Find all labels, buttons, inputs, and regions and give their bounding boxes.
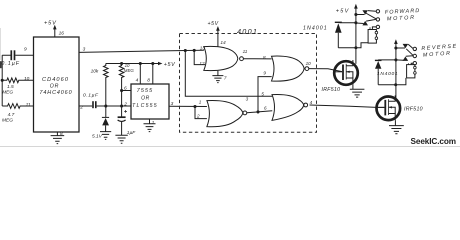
IC U1 CD4060 <box>34 37 80 132</box>
svg-text:MEG: MEG <box>124 68 135 73</box>
wire (gate D out to Q2 gate) <box>310 105 385 107</box>
svg-text:4: 4 <box>310 100 313 105</box>
svg-text:0.1µF: 0.1µF <box>1 61 20 67</box>
svg-text:3: 3 <box>83 46 86 52</box>
svg-text:16: 16 <box>59 30 65 36</box>
svg-text:1: 1 <box>199 99 202 104</box>
resistor R2 4.7MEG <box>2 102 34 124</box>
svg-text:0.1µF: 0.1µF <box>83 92 99 98</box>
svg-text:8: 8 <box>147 78 150 84</box>
svg-text:TLC555: TLC555 <box>132 103 158 109</box>
svg-text:10: 10 <box>306 61 312 66</box>
svg-text:6: 6 <box>264 106 267 111</box>
svg-text:11: 11 <box>243 49 248 54</box>
svg-text:OR: OR <box>50 84 59 90</box>
IC U2 7555 <box>123 64 173 127</box>
svg-text:5.1V: 5.1V <box>92 133 103 139</box>
wire (U2 pin 3 to gate C) <box>169 105 207 119</box>
wire (gate B out to Q1 gate) <box>309 69 342 72</box>
gate U3D NOR <box>261 92 312 121</box>
svg-text:7555: 7555 <box>137 88 153 94</box>
svg-text:+5V: +5V <box>208 21 219 27</box>
power +5V (oscillator rail) <box>106 62 176 68</box>
svg-text:4001: 4001 <box>237 27 258 36</box>
power +5V (reverse motor) <box>394 39 398 99</box>
diode D1 1N4001 <box>303 22 356 48</box>
node: RC rail (left) <box>1 55 4 106</box>
svg-text:1N4001: 1N4001 <box>303 25 328 31</box>
transistor Q2 IRF510 <box>377 95 423 120</box>
svg-text:MEG: MEG <box>2 118 13 124</box>
svg-text:12: 12 <box>199 61 205 66</box>
capacitor C3 1uF <box>118 106 137 136</box>
svg-text:8: 8 <box>60 131 63 137</box>
connector: reverse motor <box>396 43 458 77</box>
resistor R1 1.5MEG <box>2 76 33 95</box>
wire (Q14 branch to gate D pin 5) <box>185 51 272 97</box>
power +5V (forward motor) <box>336 4 358 64</box>
svg-text:1: 1 <box>152 120 155 126</box>
wire (gate C out to gate B pin 9 / gate D pin 6) <box>247 77 272 114</box>
ground (U1 pin 8) <box>51 131 65 144</box>
svg-text:IRF510: IRF510 <box>404 106 423 112</box>
scan artifact: left edge smudge <box>0 61 2 68</box>
capacitor C2 0.1uF <box>83 92 99 108</box>
svg-text:74HC4060: 74HC4060 <box>40 90 73 96</box>
connector: forward motor <box>356 8 421 43</box>
svg-text:14: 14 <box>220 40 226 46</box>
resistor R3 10k <box>91 64 109 107</box>
svg-text:9: 9 <box>263 70 266 75</box>
IC U3 4001 (dashed outline) <box>180 27 317 133</box>
svg-text:3: 3 <box>246 96 249 101</box>
svg-text:CD4060: CD4060 <box>42 77 69 83</box>
gate U3A NOR <box>194 46 248 71</box>
wire (gate A out to gate B pin 8) <box>243 58 271 60</box>
power +5V (U3 pin 14) <box>208 21 227 47</box>
svg-text:2: 2 <box>123 102 127 108</box>
gate U3B NOR <box>263 55 311 81</box>
scan artifact: bottom edge line <box>0 145 460 147</box>
svg-text:7: 7 <box>224 75 227 80</box>
svg-text:+5V: +5V <box>336 9 350 15</box>
ground (U3 pin 7) <box>212 71 227 83</box>
svg-text:OR: OR <box>141 96 150 102</box>
svg-text:+5V: +5V <box>164 62 176 68</box>
ground (Q1 source) <box>350 85 365 97</box>
capacitor C1 0.1uF <box>1 47 33 68</box>
watermark SeekIC.com <box>411 137 456 146</box>
gate U3C NOR <box>196 96 249 126</box>
svg-text:11: 11 <box>26 102 31 108</box>
diode D2 1N4001 <box>375 60 398 85</box>
svg-text:2: 2 <box>196 114 200 119</box>
svg-text:10: 10 <box>24 76 30 82</box>
svg-text:+5V: +5V <box>44 21 57 27</box>
wire (U1 pin 3 to gate A) <box>79 46 204 52</box>
svg-text:9: 9 <box>24 47 27 53</box>
wire (timing node U1.2 to U2.2) <box>79 104 131 110</box>
svg-text:IRF510: IRF510 <box>322 87 341 93</box>
ground (zener) <box>100 132 111 140</box>
power +5V (U1 pin 16) <box>44 21 64 38</box>
svg-text:MEG: MEG <box>2 90 13 96</box>
transistor Q1 IRF510 <box>322 60 358 93</box>
svg-text:1µF: 1µF <box>127 130 136 136</box>
ground (Q2 source) <box>389 120 404 134</box>
resistor R4 10MEG <box>119 62 134 91</box>
svg-text:10k: 10k <box>91 69 99 75</box>
svg-text:4: 4 <box>136 78 139 84</box>
svg-text:2: 2 <box>79 104 83 110</box>
ground (U2 pin 1) <box>144 119 156 132</box>
wire (U2 pin 6 tap) <box>120 89 131 106</box>
svg-text:1.5: 1.5 <box>7 84 14 90</box>
svg-text:1N4001: 1N4001 <box>377 71 398 77</box>
wire (Q2 drain node) <box>378 78 406 86</box>
svg-text:4.7: 4.7 <box>8 112 15 118</box>
wire (Q1 drain node) <box>338 43 368 50</box>
svg-text:SeekIC.com: SeekIC.com <box>411 137 456 146</box>
ground (C3) <box>115 135 127 143</box>
svg-text:13: 13 <box>200 46 206 51</box>
zener D3 5.1V <box>92 106 109 139</box>
